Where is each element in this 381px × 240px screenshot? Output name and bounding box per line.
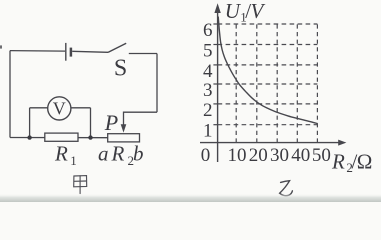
svg-text:40: 40 xyxy=(291,145,310,166)
curve U1 vs R2 xyxy=(218,17,317,124)
svg-text:R: R xyxy=(54,142,68,166)
resistor R1 body xyxy=(45,133,78,141)
svg-text:V: V xyxy=(53,99,66,119)
svg-text:1: 1 xyxy=(70,153,77,168)
battery B1 short plate xyxy=(70,48,73,57)
svg-text:S: S xyxy=(114,56,127,82)
wire to wiper xyxy=(124,112,158,125)
potentiometer R2 body xyxy=(108,134,140,142)
battery B1 long plate xyxy=(65,43,67,61)
wire left vertical xyxy=(9,51,11,138)
svg-text:R: R xyxy=(111,142,125,166)
svg-text:1: 1 xyxy=(203,121,213,142)
svg-text:6: 6 xyxy=(203,20,213,41)
junction left xyxy=(27,135,31,139)
graph x-axis xyxy=(200,142,340,144)
svg-text:a: a xyxy=(98,142,109,166)
graph y-axis xyxy=(217,9,219,162)
wire switch to top-right corner xyxy=(129,53,157,55)
wire right vertical xyxy=(156,54,158,113)
svg-text:0: 0 xyxy=(201,145,211,166)
wire battery to switch xyxy=(72,51,108,52)
svg-text:4: 4 xyxy=(203,61,213,82)
caption jia (circuit) xyxy=(74,176,87,194)
wire bottom xyxy=(10,137,108,139)
caption yi (graph) xyxy=(280,181,293,196)
switch S blade xyxy=(108,43,126,52)
svg-text:R: R xyxy=(331,149,345,173)
y-axis tick marks xyxy=(213,24,218,125)
svg-text:V: V xyxy=(251,0,266,23)
svg-text:20: 20 xyxy=(249,145,268,166)
svg-text:10: 10 xyxy=(228,145,247,166)
voltmeter branch left vertical xyxy=(29,108,31,138)
svg-text:50: 50 xyxy=(312,145,331,166)
grid horizontal dashed lines xyxy=(218,24,318,125)
svg-text:5: 5 xyxy=(203,41,213,62)
junction right xyxy=(88,135,92,139)
graph x-axis arrowhead xyxy=(338,140,346,146)
svg-text:U: U xyxy=(225,0,242,23)
svg-text:b: b xyxy=(133,142,144,166)
wiper arrowhead xyxy=(121,124,127,132)
scan band bottom xyxy=(0,194,381,203)
svg-text:3: 3 xyxy=(203,80,213,101)
svg-text:P: P xyxy=(104,110,118,135)
svg-text:30: 30 xyxy=(270,145,289,166)
graph y-axis arrowhead xyxy=(214,3,220,13)
voltmeter branch horizontal xyxy=(30,107,91,109)
wire top-left horizontal xyxy=(10,50,65,53)
scan artifact left edge xyxy=(0,45,2,48)
svg-text:2: 2 xyxy=(203,100,213,121)
grid vertical dashed lines xyxy=(236,24,317,143)
voltmeter branch right vertical xyxy=(90,108,92,138)
voltmeter V1 xyxy=(48,97,71,120)
svg-text:Ω: Ω xyxy=(357,149,373,173)
